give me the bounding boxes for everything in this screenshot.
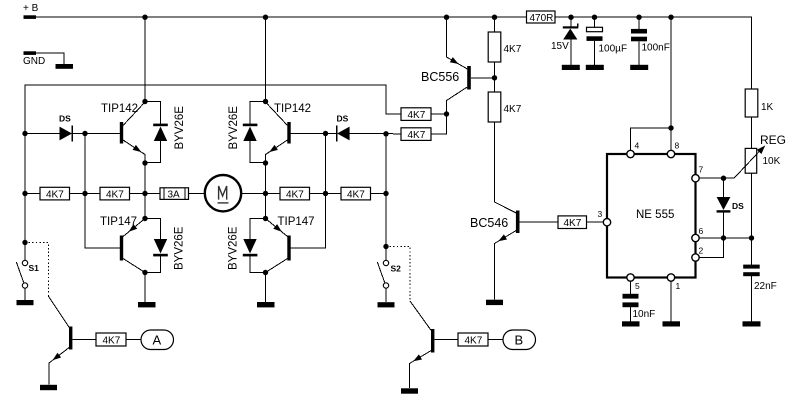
- resistor 4K7 base546: [558, 216, 587, 229]
- transistor QA: [48, 296, 72, 385]
- ground S2: [378, 302, 395, 307]
- pin 8: [667, 141, 679, 158]
- svg-text:4K7: 4K7: [408, 110, 426, 121]
- wire drive b to node: [431, 114, 447, 134]
- svg-text:3: 3: [598, 209, 603, 219]
- ground TIP147 right: [257, 302, 275, 307]
- junction x723 y178: [721, 176, 726, 181]
- resistor 4K7 A: [96, 333, 126, 347]
- svg-text:4K7: 4K7: [286, 190, 304, 201]
- transistor TIP147 right: [266, 216, 315, 273]
- transistor BC556: [421, 17, 471, 114]
- svg-text:100nF: 100nF: [642, 43, 670, 54]
- junction x85 y193: [82, 191, 87, 196]
- diode BYV26E 3: [145, 219, 186, 273]
- wire TIP147R to ground: [265, 273, 267, 303]
- wire: [488, 339, 503, 341]
- wire 4K7 to pin3: [587, 221, 604, 223]
- wire emitter node x265: [265, 154, 267, 219]
- resistor 4K7 v1: [488, 32, 522, 62]
- svg-text:S2: S2: [391, 264, 402, 274]
- transistor TIP142 right: [266, 102, 312, 155]
- wire pin1 to ground: [670, 281, 672, 321]
- junction x85 y133: [82, 131, 87, 136]
- pin 3: [598, 209, 611, 226]
- node A: [141, 330, 174, 350]
- svg-text:15V: 15V: [551, 41, 569, 52]
- transistor BC546: [470, 211, 520, 300]
- svg-text:DS: DS: [59, 114, 71, 124]
- potentiometer 10K REG: [734, 133, 786, 178]
- wire dotted link A: [25, 243, 48, 297]
- wire: [130, 193, 161, 195]
- svg-text:10nF: 10nF: [633, 309, 656, 320]
- wire TIP142R base: [291, 133, 326, 135]
- svg-text:4K7: 4K7: [46, 190, 64, 201]
- svg-text:4K7: 4K7: [465, 336, 483, 347]
- svg-text:+ B: + B: [23, 3, 39, 14]
- wire 1K to pot: [751, 117, 753, 149]
- svg-text:2: 2: [699, 246, 704, 256]
- node +B terminal: [23, 3, 39, 19]
- IC NE555: [607, 154, 696, 278]
- junction x25 y133: [22, 131, 27, 136]
- wire QB base: [434, 339, 458, 341]
- node GND terminal: [23, 51, 45, 67]
- wire collector TIP142R to rail: [265, 17, 267, 101]
- junction x145 y272: [142, 270, 147, 275]
- ground GND terminal: [56, 64, 74, 69]
- wire rail to pin8: [670, 17, 672, 150]
- resistor 1K: [745, 89, 773, 117]
- junction x265 y272: [263, 270, 268, 275]
- junction x25 y242: [22, 240, 27, 245]
- svg-text:3A: 3A: [168, 190, 181, 201]
- pin 1: [667, 274, 680, 291]
- junction x723 y238: [721, 235, 726, 240]
- junction x145 y218: [142, 216, 147, 221]
- svg-text:5: 5: [635, 281, 640, 291]
- wire zener to rail: [570, 17, 572, 26]
- junction rail x639: [636, 15, 641, 20]
- transistor TIP147 left: [100, 216, 145, 273]
- resistor 4K7 v2: [488, 92, 522, 122]
- transistor TIP142 left: [101, 102, 145, 155]
- svg-text:22nF: 22nF: [754, 281, 777, 292]
- junction rail x571: [568, 15, 573, 20]
- junction x386 y193: [383, 191, 388, 196]
- svg-text:DS: DS: [337, 114, 349, 124]
- svg-text:BYV26E: BYV26E: [228, 106, 240, 150]
- wire pin2 link: [699, 238, 723, 258]
- resistor 4K7 row2: [100, 187, 130, 200]
- svg-text:4K7: 4K7: [408, 130, 426, 141]
- svg-text:REG: REG: [760, 133, 786, 147]
- svg-text:TIP147: TIP147: [278, 216, 315, 228]
- wire base-drive top run y85: [25, 85, 401, 134]
- wire rail to 4K7 v1: [494, 17, 496, 32]
- wire pot to pin6 row: [751, 173, 753, 265]
- junction rail x446: [444, 15, 449, 20]
- ground QB: [401, 388, 418, 393]
- resistor 470R: [527, 11, 556, 24]
- capacitor 100nF: [631, 29, 670, 54]
- ground 10nF: [622, 321, 640, 326]
- diode BYV26E 2: [228, 102, 266, 163]
- wire DS1 to base node: [72, 133, 85, 135]
- svg-text:BYV26E: BYV26E: [228, 226, 240, 270]
- junction x265 y218: [263, 216, 268, 221]
- pin 5: [627, 274, 640, 291]
- ground pin1: [663, 321, 681, 326]
- wire GND terminal to ground: [36, 53, 64, 64]
- svg-text:BYV26E: BYV26E: [174, 106, 186, 150]
- diode DS1: [25, 114, 72, 142]
- svg-text:BYV26E: BYV26E: [174, 226, 186, 270]
- node B: [503, 330, 536, 350]
- junction x446 y114: [444, 111, 449, 116]
- wire 4K7 v1 to v2: [494, 62, 496, 92]
- wire base column x325: [291, 134, 326, 249]
- svg-text:1: 1: [676, 281, 681, 291]
- ground 100uF: [586, 65, 604, 70]
- svg-text:B: B: [515, 333, 524, 348]
- svg-text:TIP142: TIP142: [274, 103, 311, 115]
- junction x145 y101: [142, 99, 147, 104]
- wire collector TIP142L to rail: [144, 17, 146, 101]
- switch S1: [16, 260, 39, 288]
- wire: [310, 193, 342, 195]
- svg-text:8: 8: [675, 141, 680, 151]
- ground 22nF: [743, 321, 761, 326]
- junction rail x145: [142, 15, 147, 20]
- pin 4: [627, 141, 640, 158]
- pin 2: [692, 246, 704, 262]
- wire left column x25: [24, 134, 26, 261]
- ground TIP147 left: [138, 302, 156, 307]
- junction rail x494: [492, 15, 497, 20]
- junction x494 y77: [492, 75, 497, 80]
- wire pin7 to pot wiper: [699, 177, 734, 179]
- wire S1 to ground: [24, 288, 26, 300]
- wire base column x85: [85, 134, 120, 249]
- svg-text:4K7: 4K7: [504, 104, 522, 115]
- capacitor 100uF: [587, 27, 628, 54]
- wire QA base: [72, 339, 96, 341]
- wire 100uF to ground: [594, 41, 596, 65]
- wire TIP142L base: [85, 133, 120, 135]
- ground S1: [17, 300, 34, 305]
- svg-text:GND: GND: [23, 56, 45, 67]
- junction x145 y163: [142, 160, 147, 165]
- junction x145 y193: [142, 191, 147, 196]
- resistor 4K7 drive b: [401, 128, 431, 141]
- capacitor 22nF: [743, 265, 777, 292]
- wire: [126, 339, 141, 341]
- fuse 3A: [160, 188, 189, 201]
- wire 100uF to rail: [594, 17, 596, 27]
- wire +B rail: [36, 16, 526, 18]
- svg-text:7: 7: [699, 165, 704, 175]
- junction x386 y133: [383, 131, 388, 136]
- junction rail x265: [263, 15, 268, 20]
- wire switch column x386: [385, 134, 387, 261]
- wire S2 to ground: [385, 288, 387, 302]
- junction x325 y193: [323, 191, 328, 196]
- junction x265 y193: [263, 191, 268, 196]
- svg-text:S1: S1: [29, 263, 40, 273]
- resistor 4K7 row3: [280, 187, 310, 200]
- svg-text:BC546: BC546: [470, 216, 508, 230]
- ground 100nF: [630, 65, 648, 70]
- wire pin6 row: [699, 237, 751, 239]
- ground BC546: [486, 300, 503, 305]
- svg-text:10K: 10K: [763, 156, 781, 167]
- diode BYV26E 4: [228, 219, 266, 273]
- wire: [241, 193, 280, 195]
- resistor 4K7 row1: [40, 187, 70, 200]
- svg-text:4K7: 4K7: [103, 336, 121, 347]
- svg-text:TIP142: TIP142: [101, 103, 138, 115]
- junction x325 y133: [323, 131, 328, 136]
- wire dotted link B: [386, 247, 410, 302]
- svg-text:470R: 470R: [530, 13, 554, 24]
- pin 7: [692, 165, 704, 182]
- junction x25 y193: [22, 191, 27, 196]
- wire emitter node x145: [144, 154, 146, 219]
- wire zener to ground: [570, 40, 572, 66]
- svg-text:4K7: 4K7: [106, 190, 124, 201]
- resistor 4K7 row4: [341, 187, 371, 200]
- wire 22nF to ground: [751, 276, 753, 321]
- svg-text:4: 4: [635, 141, 640, 151]
- wire: [371, 193, 387, 195]
- svg-text:TIP147: TIP147: [100, 216, 137, 228]
- wire 100nF to rail: [638, 17, 640, 29]
- wire TIP147L to ground: [144, 273, 146, 303]
- svg-text:4K7: 4K7: [564, 218, 582, 229]
- switch S2: [377, 260, 401, 288]
- svg-text:NE 555: NE 555: [636, 209, 674, 221]
- junction x671 y128: [668, 125, 673, 130]
- junction rail x671: [668, 15, 673, 20]
- ground QA: [40, 385, 57, 390]
- junction x265 y101: [263, 99, 268, 104]
- junction x265 y163: [263, 160, 268, 165]
- zener diode 15V: [551, 24, 578, 53]
- resistor 4K7 drive a: [401, 108, 431, 121]
- wire: [189, 193, 205, 195]
- wire drive a to node: [431, 113, 447, 115]
- svg-text:A: A: [153, 333, 162, 348]
- svg-text:6: 6: [699, 226, 704, 236]
- wire 100nF to ground: [638, 41, 640, 65]
- svg-text:BC556: BC556: [421, 70, 459, 84]
- ground zener: [562, 65, 580, 70]
- motor M: [205, 175, 241, 211]
- resistor 4K7 B: [458, 333, 488, 347]
- wire mid row left: [25, 193, 40, 195]
- svg-text:4K7: 4K7: [504, 44, 522, 55]
- diode BYV26E 1: [145, 102, 186, 163]
- junction rail x594: [592, 15, 597, 20]
- svg-text:1K: 1K: [761, 102, 774, 113]
- junction x386 y246: [383, 244, 388, 249]
- transistor QB: [410, 301, 435, 388]
- wire DS3 to pin6 row: [723, 213, 725, 238]
- wire DS2 to x386: [350, 133, 401, 135]
- wire pin4 pin8 top link: [631, 128, 672, 150]
- wire: [70, 193, 101, 195]
- wire BC546 base: [520, 221, 559, 223]
- diode DS3: [717, 178, 745, 212]
- capacitor 10nF: [623, 294, 656, 320]
- junction pot pin6: [749, 235, 754, 240]
- pin 6: [692, 226, 704, 242]
- diode DS2: [326, 114, 350, 142]
- svg-text:100µF: 100µF: [599, 44, 628, 55]
- wire 10nF to ground: [630, 307, 632, 321]
- wire rail right of 470R: [555, 17, 752, 89]
- wire 4K7 v2 to BC546 collector: [495, 122, 517, 213]
- wire BC556 base: [471, 77, 495, 79]
- svg-text:DS: DS: [732, 201, 744, 211]
- wire pin5 down: [630, 281, 632, 294]
- svg-text:4K7: 4K7: [347, 190, 365, 201]
